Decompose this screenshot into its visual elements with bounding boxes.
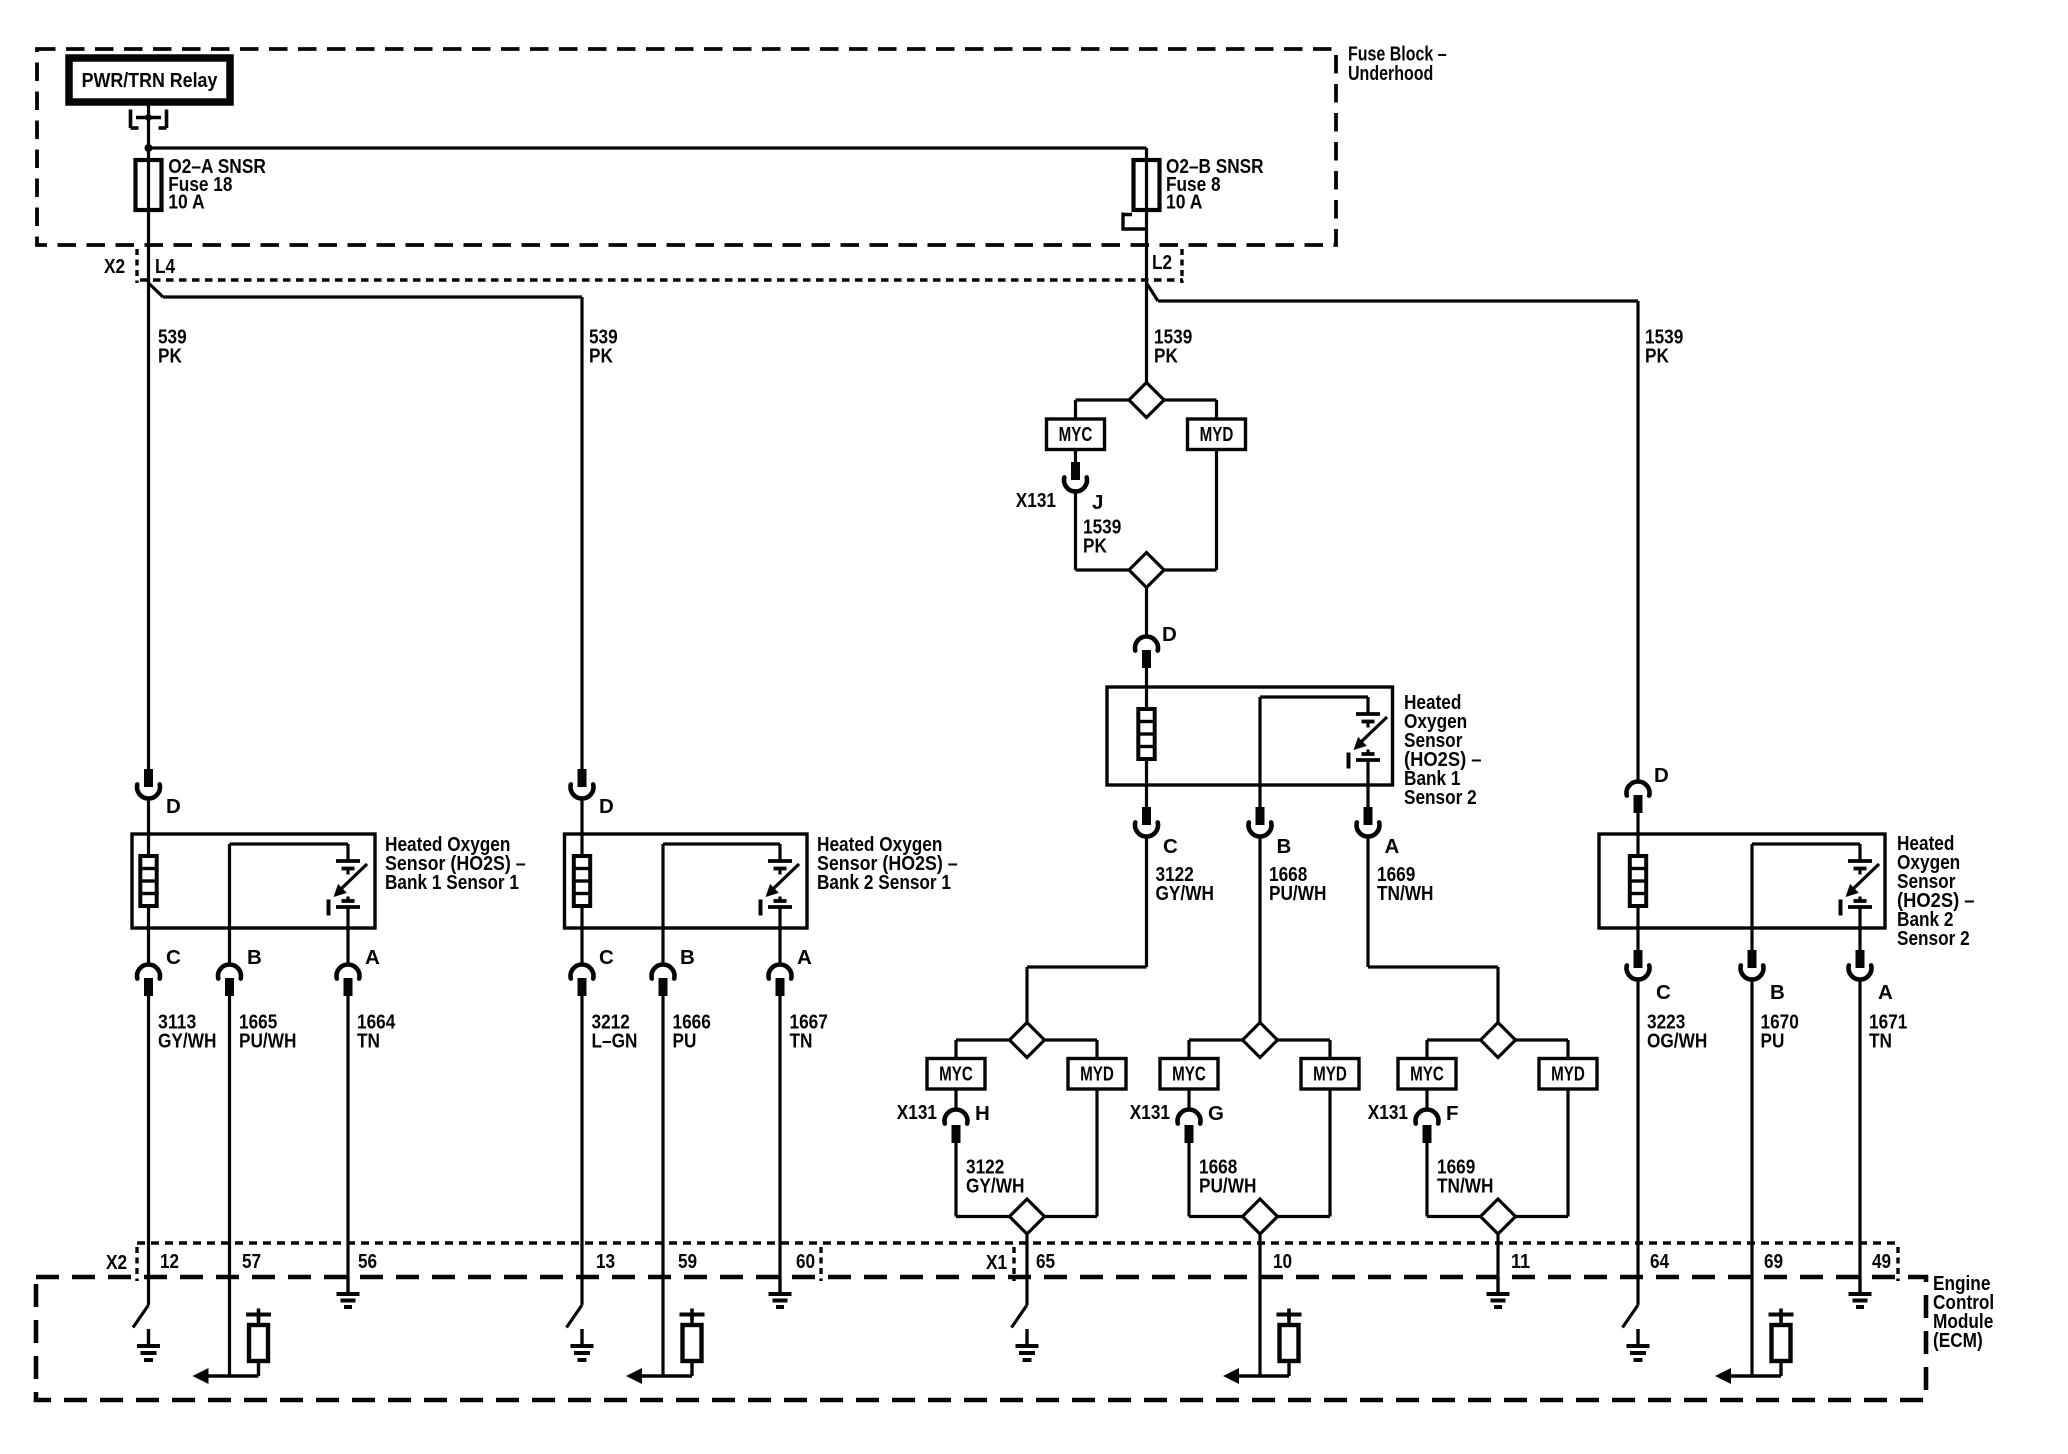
connector pin D (HO2S B1S2) (1135, 623, 1177, 687)
svg-text:GY/WH: GY/WH (158, 1030, 216, 1053)
label: X131 G (1130, 1101, 1224, 1125)
relay output terminal bracket (131, 110, 167, 129)
sensor cell (B1S2) (1349, 697, 1388, 784)
label: 1668 PU/WH (jumper) (1199, 1156, 1256, 1198)
wire: fuse 8 to splice (1539 PK) (1145, 210, 1148, 383)
svg-text:PWR/TRN Relay: PWR/TRN Relay (82, 69, 218, 92)
label: Heated Oxygen Sensor (HO2S) - Bank 2 Sensor 2 (1897, 832, 1975, 950)
svg-text:C: C (1163, 835, 1178, 858)
label: 3212 L-GN (592, 1011, 638, 1053)
svg-text:MYC: MYC (939, 1063, 973, 1086)
connector X2 pin L4 label row (104, 249, 176, 283)
label: 1671 TN (1869, 1011, 1907, 1053)
fuse block cavity MYC (group F) (1398, 1059, 1456, 1090)
connector pin A (B2S1) (769, 928, 813, 996)
separator after pin 49 (1896, 1247, 1899, 1281)
fuse block cavity MYD (group F) (1539, 1059, 1597, 1090)
svg-text:L2: L2 (1152, 251, 1172, 274)
svg-text:X131: X131 (1016, 489, 1056, 512)
label: 1539 PK (center) (1154, 326, 1192, 368)
svg-text:64: 64 (1650, 1250, 1670, 1273)
ECM internal pull-up resistor and signal arrow (pin 59) (626, 1309, 705, 1385)
splice diamond (bottom, group F) (1481, 1199, 1516, 1234)
connector pin D (B1S1) (137, 769, 181, 834)
wire: MYC to lower splice (group G) (1189, 1143, 1243, 1217)
label: Fuse Block - Underhood (1348, 43, 1447, 86)
splice diamond (top, group G) (1243, 1023, 1278, 1058)
fuse block cavity MYD (group G) (1301, 1059, 1359, 1090)
ECM internal switch to ground (pin 12) (133, 1305, 160, 1360)
svg-text:PK: PK (1154, 345, 1178, 368)
label: 539 PK (second) (589, 326, 618, 368)
wire: MYD to splice S2 (1164, 449, 1217, 570)
svg-text:PU/WH: PU/WH (1269, 882, 1326, 905)
svg-text:D: D (1162, 623, 1177, 646)
svg-text:PU: PU (1761, 1030, 1785, 1053)
wire: MYC to lower splice (group F) (1427, 1143, 1481, 1217)
wire: splice to MYC (group F) (1427, 1040, 1481, 1059)
wire: B2S2 C to ECM pin 64 (1636, 980, 1639, 1305)
wire: MYD to lower splice (group H) (1045, 1089, 1098, 1217)
svg-text:49: 49 (1872, 1250, 1891, 1273)
HO2S Bank 2 Sensor 1 box (565, 834, 808, 928)
sensor cell (B1S1) (329, 844, 368, 931)
svg-text:Bank 1 Sensor 1: Bank 1 Sensor 1 (385, 871, 519, 894)
heater element (B1S2) (1138, 687, 1154, 785)
internal wire B to cell (B1S2) (1260, 697, 1368, 785)
label: 1539 PK (splice jumper) (1083, 516, 1121, 558)
svg-text:10 A: 10 A (168, 191, 205, 214)
ECM internal ground (pin 60) (769, 1277, 792, 1307)
svg-text:TN/WH: TN/WH (1377, 882, 1433, 905)
separator after pin 60 (819, 1247, 822, 1281)
relay K: PWR/TRN Relay box (69, 58, 230, 102)
connector pin B (B2S2) (1741, 928, 1785, 1004)
wire: B2S1 A to ECM pin 60 (778, 996, 781, 1277)
wire: splice S2 down (1145, 588, 1148, 637)
harness connector dotted line (ECM) (137, 1241, 1898, 1245)
label: 3122 GY/WH (upper) (1156, 863, 1214, 905)
ECM internal pull-up resistor and signal arrow (pin 69) (1715, 1309, 1794, 1385)
label: 3223 OG/WH (1647, 1011, 1707, 1053)
label: Heated Oxygen Sensor (HO2S) - Bank 1 Sensor 2 (1404, 691, 1482, 809)
svg-text:MYC: MYC (1172, 1063, 1206, 1086)
wire: MYD to lower splice (group G) (1278, 1089, 1331, 1217)
ECM internal switch to ground (pin 64) (1623, 1305, 1650, 1360)
connector pin C (B2S1) (571, 928, 615, 996)
svg-text:D: D (166, 795, 181, 818)
connector pin A (B1S2) (1357, 785, 1400, 858)
fuse block cavity MYC (group H) (927, 1059, 985, 1090)
label: 1668 PU/WH (upper) (1269, 863, 1326, 905)
label: Heated Oxygen Sensor (HO2S) - Bank 1 Sensor 1 (385, 833, 526, 894)
wire: fuse 18 to HO2S B1S1 pin D (539 PK) (147, 210, 150, 769)
svg-text:G: G (1208, 1102, 1224, 1125)
heater element (B1S1) (140, 834, 156, 928)
wire: B1S1 C to ECM pin 12 (147, 996, 150, 1305)
svg-text:X131: X131 (1368, 1101, 1408, 1124)
svg-text:D: D (599, 795, 614, 818)
splice diamond (bottom, group G) (1243, 1199, 1278, 1234)
splice S1 diamond (1129, 383, 1164, 418)
svg-text:MYD: MYD (1313, 1063, 1347, 1086)
svg-text:12: 12 (160, 1250, 179, 1273)
svg-text:Bank 2 Sensor 1: Bank 2 Sensor 1 (817, 871, 951, 894)
sensor cell (B2S1) (761, 844, 800, 931)
svg-text:MYC: MYC (1410, 1063, 1444, 1086)
label: 1669 TN/WH (jumper) (1437, 1156, 1493, 1198)
fuse block cavity MYD (group H) (1068, 1059, 1126, 1090)
svg-text:GY/WH: GY/WH (966, 1175, 1024, 1198)
svg-text:Sensor 2: Sensor 2 (1404, 786, 1477, 809)
svg-text:A: A (365, 946, 380, 969)
svg-text:D: D (1654, 764, 1669, 787)
wire: B2S2 B to ECM pin 69 (1750, 980, 1753, 1376)
svg-text:A: A (797, 946, 812, 969)
svg-text:11: 11 (1511, 1250, 1530, 1273)
fuse F8: O2-B SNSR Fuse 8 10 A (1134, 155, 1264, 214)
ECM internal ground (pin 11) (1487, 1277, 1510, 1307)
wire: feed to fuse 8 (149, 148, 1147, 160)
label: 3113 GY/WH (158, 1011, 216, 1053)
label: 1539 PK (right) (1645, 326, 1683, 368)
svg-text:PK: PK (589, 345, 613, 368)
internal wire B to cell (B2S1) (663, 844, 780, 928)
wire: B1S2 C to splice group 1 (1027, 837, 1147, 1023)
label: 3122 GY/WH (jumper) (966, 1156, 1024, 1198)
label: X131 J (1016, 489, 1104, 514)
splice diamond (top, group H) (1010, 1023, 1045, 1058)
wire: B1S1 A to ECM pin 56 (346, 996, 349, 1277)
svg-text:TN/WH: TN/WH (1437, 1175, 1493, 1198)
wire: splice to MYC (1076, 400, 1130, 419)
svg-text:MYD: MYD (1080, 1063, 1114, 1086)
connector X1 label (ECM) (986, 1247, 1014, 1281)
HO2S Bank 1 Sensor 1 box (132, 834, 375, 928)
HO2S Bank 2 Sensor 2 box (1599, 834, 1885, 928)
connector X2 label (ECM) (106, 1247, 137, 1281)
connector pin D (B2S2) (1627, 764, 1669, 834)
label: Heated Oxygen Sensor (HO2S) - Bank 2 Sensor 1 (817, 833, 958, 894)
wire: B2S2 A to ECM pin 49 (1858, 980, 1861, 1277)
svg-text:B: B (1770, 981, 1785, 1004)
wire: splice to MYD (group F) (1516, 1040, 1569, 1059)
fuse block cavity MYC (group G) (1160, 1059, 1218, 1090)
wire: B1S2 B to splice group 2 (1258, 837, 1261, 1023)
ECM internal switch to ground (pin 65) (1012, 1305, 1039, 1360)
svg-text:X131: X131 (1130, 1101, 1170, 1124)
svg-text:56: 56 (358, 1250, 377, 1273)
svg-text:C: C (599, 946, 614, 969)
label: X131 H (897, 1101, 990, 1125)
connector X131 pin J (1064, 449, 1087, 492)
engine control module dashed box (36, 1277, 1926, 1400)
connector X131 pin G (1178, 1089, 1201, 1143)
svg-text:(ECM): (ECM) (1933, 1329, 1983, 1352)
connector pin B (B1S1) (218, 928, 262, 996)
fuse F8 lower terminal hook (1123, 213, 1147, 230)
sensor cell (B2S2) (1841, 844, 1880, 931)
label: Engine Control Module (ECM) (1933, 1272, 1994, 1352)
wire: branch 539 PK to HO2S B2S1 (149, 283, 583, 769)
label: 1667 TN (790, 1011, 828, 1053)
svg-text:X2: X2 (104, 255, 125, 278)
wire: B1S1 B to ECM pin 57 (228, 996, 231, 1376)
svg-text:X1: X1 (986, 1251, 1007, 1274)
wire: splice to ECM pin 11 (1496, 1234, 1499, 1277)
label: 539 PK (left) (158, 326, 187, 368)
svg-text:MYD: MYD (1551, 1063, 1585, 1086)
svg-text:PK: PK (1083, 535, 1107, 558)
svg-text:PU/WH: PU/WH (239, 1030, 296, 1053)
svg-text:PU/WH: PU/WH (1199, 1175, 1256, 1198)
ECM internal ground (pin 49) (1849, 1277, 1872, 1307)
wire: splice to ECM pin 10 (1258, 1234, 1261, 1376)
wire: splice to ECM pin 65 (1025, 1234, 1028, 1305)
svg-text:C: C (1656, 981, 1671, 1004)
svg-text:TN: TN (790, 1030, 813, 1053)
splice S2 diamond (1129, 553, 1164, 588)
ECM internal switch to ground (pin 13) (567, 1305, 594, 1360)
ECM internal pull-up resistor and signal arrow (pin 57) (193, 1309, 272, 1385)
label: 1665 PU/WH (239, 1011, 296, 1053)
fuse F18: O2-A SNSR Fuse 18 10 A (136, 155, 267, 214)
ECM internal pull-up resistor and signal arrow (pin 10) (1223, 1309, 1302, 1385)
svg-text:MYD: MYD (1200, 423, 1234, 446)
svg-text:A: A (1385, 835, 1400, 858)
svg-text:MYC: MYC (1059, 423, 1093, 446)
connector X131 pin H (945, 1089, 968, 1143)
internal wire B to cell (B1S1) (230, 844, 349, 928)
svg-text:59: 59 (678, 1250, 697, 1273)
connector pin C (B2S2) (1627, 928, 1672, 1004)
svg-text:GY/WH: GY/WH (1156, 882, 1214, 905)
svg-text:PK: PK (158, 345, 182, 368)
svg-text:L–GN: L–GN (592, 1030, 638, 1053)
svg-text:13: 13 (596, 1250, 615, 1273)
HO2S Bank 1 Sensor 2 box (1107, 687, 1393, 785)
svg-text:C: C (166, 946, 181, 969)
fuse block cavity MYC (1047, 419, 1105, 450)
connector pin D (B2S1) (571, 769, 614, 834)
connector X131 pin F (1416, 1089, 1439, 1143)
svg-text:65: 65 (1036, 1250, 1055, 1273)
connector pin B (B2S1) (652, 928, 695, 996)
wire: MYD to lower splice (group F) (1516, 1089, 1569, 1217)
svg-text:OG/WH: OG/WH (1647, 1030, 1707, 1053)
label: 1666 PU (673, 1011, 711, 1053)
label: 1670 PU (1761, 1011, 1799, 1053)
ECM internal ground (pin 56) (337, 1277, 360, 1307)
connector pin A (B2S2) (1849, 928, 1894, 1004)
wire: B2S1 B to ECM pin 59 (661, 996, 664, 1376)
node: junction to fuse 8 feed (145, 144, 153, 152)
wire: branch 1539 PK to HO2S B2S2 (1147, 283, 1639, 782)
heater element (B2S2) (1630, 834, 1646, 928)
harness connector dotted line (140, 278, 1183, 282)
label: X131 F (1368, 1101, 1459, 1125)
wire: splice to MYD (group G) (1278, 1040, 1331, 1059)
fuse block cavity MYD (1188, 419, 1246, 450)
svg-text:L4: L4 (155, 255, 176, 278)
wire: splice to MYC (group H) (956, 1040, 1010, 1059)
svg-text:10: 10 (1273, 1250, 1292, 1273)
svg-text:A: A (1878, 981, 1893, 1004)
svg-text:PK: PK (1645, 345, 1669, 368)
svg-text:TN: TN (1869, 1030, 1892, 1053)
connector pin C (B1S1) (137, 928, 181, 996)
svg-text:F: F (1446, 1102, 1459, 1125)
wire: splice to MYD (1164, 400, 1217, 419)
svg-text:10 A: 10 A (1166, 191, 1203, 214)
svg-text:69: 69 (1764, 1250, 1783, 1273)
svg-text:B: B (680, 946, 695, 969)
wire: B1S2 A to splice group 3 (1368, 837, 1498, 1023)
connector pin B (B1S2) (1249, 785, 1292, 858)
wire: splice to MYD (group H) (1045, 1040, 1098, 1059)
connector pin L2 label (1152, 249, 1182, 283)
svg-text:H: H (975, 1102, 990, 1125)
svg-text:X131: X131 (897, 1101, 937, 1124)
wire: MYC to splice S2 (1076, 492, 1130, 570)
connector pin C (B1S2) (1135, 785, 1178, 858)
svg-text:PU: PU (673, 1030, 697, 1053)
splice diamond (top, group F) (1481, 1023, 1516, 1058)
heater element (B2S1) (574, 834, 590, 928)
splice diamond (bottom, group H) (1010, 1199, 1045, 1234)
connector pin A (B1S1) (337, 928, 381, 996)
svg-text:60: 60 (796, 1250, 815, 1273)
svg-text:57: 57 (242, 1250, 261, 1273)
fuse block - underhood dashed box (37, 49, 1336, 245)
wire: splice to MYC (group G) (1189, 1040, 1243, 1059)
svg-text:J: J (1092, 491, 1103, 514)
svg-text:X2: X2 (106, 1251, 127, 1274)
svg-text:Sensor 2: Sensor 2 (1897, 927, 1970, 950)
label: 1664 TN (357, 1011, 396, 1053)
svg-text:TN: TN (357, 1030, 380, 1053)
wire: B2S1 C to ECM pin 13 (580, 996, 583, 1305)
svg-text:B: B (1277, 835, 1292, 858)
svg-text:Underhood: Underhood (1348, 62, 1433, 85)
wire: relay to fuse 18 (147, 102, 150, 160)
label: 1669 TN/WH (upper) (1377, 863, 1433, 905)
svg-text:B: B (247, 946, 262, 969)
wire: MYC to lower splice (group H) (956, 1143, 1010, 1217)
internal wire B to cell (B2S2) (1752, 844, 1860, 928)
